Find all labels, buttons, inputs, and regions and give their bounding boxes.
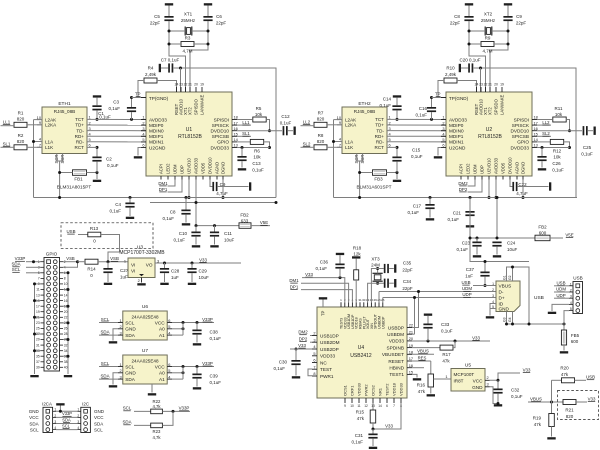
svg-text:VDD18: VDD18 bbox=[392, 382, 397, 396]
capacitor C31 0.1uF bbox=[351, 429, 377, 449]
svg-text:U4: U4 bbox=[358, 345, 365, 351]
svg-text:USBDP: USBDP bbox=[381, 316, 385, 329]
svg-text:47k: 47k bbox=[418, 389, 426, 394]
resistor R2 820 bbox=[14, 133, 27, 150]
wire bbox=[469, 21, 486, 92]
svg-text:USB: USB bbox=[66, 229, 75, 234]
svg-text:25MHz: 25MHz bbox=[481, 18, 496, 23]
svg-text:C14: C14 bbox=[383, 97, 392, 102]
wire pin22 bbox=[412, 290, 420, 328]
wire bbox=[67, 273, 69, 374]
svg-text:10uF: 10uF bbox=[199, 275, 210, 280]
node LL1 bbox=[3, 120, 11, 125]
node SCL bbox=[99, 361, 118, 367]
resistor R18 12k bbox=[352, 246, 362, 303]
svg-text:VI: VI bbox=[131, 268, 135, 273]
connector I2C header bbox=[77, 402, 90, 433]
junction bbox=[468, 30, 510, 46]
node UDM bbox=[554, 287, 569, 292]
capacitor C10 0.1uF bbox=[173, 226, 200, 248]
svg-text:2: 2 bbox=[142, 120, 144, 125]
capacitor C37 1uF bbox=[465, 267, 489, 287]
svg-text:UDP: UDP bbox=[462, 292, 471, 297]
wire rail B bbox=[150, 201, 278, 204]
wire TEST bracket bbox=[308, 369, 312, 376]
svg-text:R4: R4 bbox=[148, 66, 154, 71]
svg-text:VDD33: VDD33 bbox=[357, 382, 362, 396]
ground bbox=[93, 171, 101, 182]
svg-text:AVDD33: AVDD33 bbox=[449, 117, 467, 122]
svg-text:L2KA: L2KA bbox=[45, 123, 57, 128]
svg-text:820: 820 bbox=[566, 414, 574, 419]
connector USB header bbox=[569, 275, 583, 313]
svg-text:0,1uF: 0,1uF bbox=[415, 112, 427, 117]
svg-text:0,1uF: 0,1uF bbox=[280, 121, 292, 126]
svg-text:R15: R15 bbox=[356, 410, 365, 415]
wire RD+ bbox=[87, 135, 146, 137]
svg-text:MDIN0: MDIN0 bbox=[149, 129, 164, 134]
dashed box R21 bbox=[558, 391, 599, 420]
node LL2 bbox=[303, 120, 311, 125]
wire bbox=[333, 120, 335, 198]
svg-text:NR1: NR1 bbox=[378, 387, 383, 396]
svg-text:XT2: XT2 bbox=[484, 12, 493, 17]
svg-text:R21: R21 bbox=[565, 408, 574, 413]
node V33 bbox=[199, 257, 207, 262]
svg-text:U2VD10: U2VD10 bbox=[187, 158, 192, 174]
svg-text:MDIP1: MDIP1 bbox=[149, 134, 164, 139]
ground bbox=[148, 384, 156, 396]
svg-text:DM1: DM1 bbox=[289, 278, 299, 283]
wire SCL bbox=[56, 429, 77, 431]
svg-text:L1K: L1K bbox=[345, 145, 354, 150]
svg-text:RD-: RD- bbox=[376, 140, 385, 145]
svg-text:SDA: SDA bbox=[125, 377, 136, 382]
resistor R3 4.7M bbox=[181, 36, 194, 54]
svg-text:1: 1 bbox=[120, 362, 122, 367]
svg-text:C36: C36 bbox=[320, 260, 329, 265]
svg-text:TP: TP bbox=[135, 92, 141, 97]
svg-text:7: 7 bbox=[393, 404, 395, 408]
svg-text:A0: A0 bbox=[159, 327, 165, 332]
crystal XT1 25MHz bbox=[181, 12, 196, 36]
svg-text:MCP100T: MCP100T bbox=[454, 372, 475, 377]
label VCC left bbox=[29, 415, 39, 420]
svg-text:5: 5 bbox=[168, 324, 170, 329]
svg-text:18: 18 bbox=[409, 350, 413, 355]
capacitor C27 1uF bbox=[103, 262, 128, 285]
svg-text:24AA025E48: 24AA025E48 bbox=[131, 359, 159, 364]
svg-text:19: 19 bbox=[200, 83, 204, 87]
svg-text:SPDINB: SPDINB bbox=[387, 345, 404, 350]
node TP bbox=[435, 92, 441, 97]
svg-text:R13: R13 bbox=[90, 226, 99, 231]
capacitor C9 22pF bbox=[503, 14, 526, 25]
wire bbox=[484, 260, 530, 263]
wire bbox=[138, 81, 146, 98]
wire DVDD10 bbox=[537, 130, 582, 132]
svg-text:2: 2 bbox=[138, 278, 140, 283]
node V33 bbox=[412, 335, 490, 342]
svg-text:L1A: L1A bbox=[345, 139, 354, 144]
wire TCT AVDD33 bbox=[387, 118, 446, 121]
wire shield bottom bbox=[507, 312, 513, 325]
capacitor C14 0.1uF bbox=[379, 95, 401, 119]
svg-text:A0: A0 bbox=[159, 371, 165, 376]
svg-text:R2: R2 bbox=[18, 133, 24, 138]
svg-text:R23: R23 bbox=[153, 429, 161, 434]
svg-text:17: 17 bbox=[534, 120, 538, 125]
svg-text:47k: 47k bbox=[561, 372, 569, 377]
svg-text:TP: TP bbox=[435, 92, 441, 97]
svg-text:15: 15 bbox=[534, 132, 538, 137]
svg-text:1: 1 bbox=[445, 374, 447, 379]
svg-text:0,1uF: 0,1uF bbox=[99, 115, 111, 120]
wire bbox=[469, 237, 486, 272]
svg-text:35: 35 bbox=[36, 354, 40, 358]
node TP bbox=[135, 92, 141, 97]
capacitor C16 0.1uF bbox=[415, 96, 436, 119]
ferrite bead FB3 bbox=[357, 170, 392, 190]
svg-text:25: 25 bbox=[36, 327, 40, 331]
capacitor C21 0.1uF bbox=[447, 196, 474, 228]
svg-text:USB: USB bbox=[573, 275, 582, 280]
svg-text:LANWAKE: LANWAKE bbox=[500, 94, 505, 115]
svg-text:V33: V33 bbox=[385, 424, 393, 429]
svg-text:G3: G3 bbox=[503, 317, 507, 322]
svg-text:VBUSDET: VBUSDET bbox=[382, 352, 404, 357]
svg-text:16: 16 bbox=[64, 299, 68, 303]
svg-text:2,49k: 2,49k bbox=[145, 72, 157, 77]
svg-text:SDA: SDA bbox=[125, 333, 136, 338]
svg-text:SCL: SCL bbox=[125, 320, 135, 325]
wire TP row bbox=[432, 97, 447, 99]
svg-text:LANWAKE: LANWAKE bbox=[200, 94, 205, 115]
resistor R20 47k bbox=[552, 366, 587, 383]
node VBUS bbox=[528, 396, 563, 403]
wire bbox=[434, 374, 452, 379]
svg-text:6: 6 bbox=[168, 318, 170, 323]
wire UDM bbox=[379, 292, 496, 303]
svg-text:20: 20 bbox=[64, 310, 68, 314]
svg-text:9: 9 bbox=[344, 404, 346, 408]
svg-text:2: 2 bbox=[120, 368, 122, 373]
svg-text:22: 22 bbox=[484, 83, 488, 87]
connector USB micro bbox=[492, 275, 520, 322]
label GND left bbox=[29, 409, 40, 414]
svg-text:AGND: AGND bbox=[215, 162, 220, 174]
svg-text:0,1uF: 0,1uF bbox=[351, 440, 363, 445]
svg-text:V5E: V5E bbox=[565, 233, 573, 238]
capacitor C32 0.1uF bbox=[493, 380, 522, 406]
svg-text:TP: TP bbox=[321, 310, 326, 316]
svg-text:RCT: RCT bbox=[375, 145, 385, 150]
wire shield top bbox=[507, 267, 530, 324]
svg-text:XT2: XT2 bbox=[188, 107, 193, 115]
svg-text:2: 2 bbox=[492, 288, 494, 292]
resistor R23 4.7k bbox=[151, 423, 163, 440]
svg-text:C7 0,1uF: C7 0,1uF bbox=[161, 58, 180, 63]
wire bbox=[195, 201, 198, 226]
wire bbox=[78, 261, 86, 263]
svg-text:USBDM: USBDM bbox=[387, 332, 404, 337]
ground bbox=[504, 3, 512, 16]
svg-text:C16: C16 bbox=[419, 106, 428, 111]
svg-text:SL1: SL1 bbox=[242, 131, 250, 136]
svg-text:C2: C2 bbox=[106, 157, 112, 162]
svg-text:5: 5 bbox=[313, 351, 315, 356]
wire bbox=[360, 172, 373, 174]
svg-text:7: 7 bbox=[339, 143, 341, 148]
resistor R7 820 bbox=[314, 111, 327, 128]
wire TD+ bbox=[87, 124, 146, 126]
node USB bbox=[461, 280, 496, 286]
svg-text:DVDD33: DVDD33 bbox=[211, 145, 230, 150]
wire VCC bbox=[56, 416, 77, 418]
svg-text:0,1uF: 0,1uF bbox=[173, 238, 185, 243]
svg-text:13: 13 bbox=[534, 143, 538, 148]
svg-text:2,49k: 2,49k bbox=[445, 72, 457, 77]
IC U2 RTL8152B bbox=[441, 83, 539, 180]
svg-text:4,7uF: 4,7uF bbox=[216, 191, 228, 196]
wire bbox=[63, 305, 70, 308]
svg-text:3: 3 bbox=[487, 382, 489, 387]
svg-text:TEST2: TEST2 bbox=[385, 383, 390, 396]
ground bbox=[134, 148, 142, 159]
wire bbox=[490, 21, 508, 92]
wire V5E rail left bbox=[34, 196, 277, 199]
wire bbox=[383, 403, 401, 429]
connector I2CA header bbox=[42, 402, 56, 433]
svg-text:C15: C15 bbox=[412, 148, 421, 153]
svg-text:UDM: UDM bbox=[473, 164, 478, 174]
svg-text:C10: C10 bbox=[179, 231, 188, 236]
node V33P bbox=[172, 317, 214, 324]
IC U6 24AA025E48 bbox=[118, 304, 172, 340]
wire bbox=[566, 120, 571, 133]
wire bbox=[1, 146, 15, 148]
svg-text:FB3: FB3 bbox=[374, 177, 383, 182]
svg-text:SPICSB: SPICSB bbox=[212, 134, 229, 139]
wire bbox=[301, 146, 315, 148]
capacitor C39 0.1uF bbox=[192, 367, 221, 390]
node SL1 bbox=[3, 141, 11, 146]
ground TEST1 bbox=[412, 374, 421, 380]
crystal XT3 24M bbox=[371, 257, 383, 282]
svg-text:U1: U1 bbox=[186, 127, 193, 133]
wire bbox=[192, 30, 208, 32]
wire bbox=[59, 161, 61, 173]
wire bbox=[537, 119, 553, 121]
svg-text:UDM: UDM bbox=[556, 287, 566, 292]
capacitor C22 4.7uF bbox=[510, 180, 551, 196]
svg-text:SDA: SDA bbox=[62, 417, 71, 422]
wire bbox=[222, 180, 225, 200]
svg-text:TD+: TD+ bbox=[375, 123, 384, 128]
svg-text:R16: R16 bbox=[417, 382, 426, 387]
wire bbox=[488, 180, 491, 200]
svg-text:UDM: UDM bbox=[462, 286, 472, 291]
wire bbox=[564, 311, 569, 324]
capacitor C13 0.1uF bbox=[237, 148, 264, 173]
svg-text:C9: C9 bbox=[516, 14, 522, 19]
svg-text:C35: C35 bbox=[403, 261, 412, 266]
IC U5 MCP100T bbox=[451, 362, 490, 391]
svg-text:12k: 12k bbox=[353, 251, 361, 256]
svg-text:ACPI: ACPI bbox=[159, 164, 164, 174]
svg-text:19: 19 bbox=[409, 343, 413, 348]
svg-text:15: 15 bbox=[409, 370, 413, 375]
svg-text:1: 1 bbox=[77, 408, 79, 412]
capacitor C1 0.1uF bbox=[92, 95, 111, 119]
resistor R13 0 bbox=[88, 226, 101, 244]
wire bbox=[357, 154, 363, 162]
ground bbox=[459, 64, 461, 72]
svg-text:U2GND: U2GND bbox=[449, 145, 466, 150]
svg-text:1: 1 bbox=[124, 259, 126, 264]
capacitor C2 0.1uF bbox=[92, 147, 118, 172]
resistor R1 820 bbox=[14, 111, 27, 128]
svg-text:15: 15 bbox=[234, 132, 238, 137]
svg-text:38: 38 bbox=[64, 360, 68, 364]
wire bbox=[169, 43, 181, 45]
svg-text:LL2: LL2 bbox=[303, 120, 311, 125]
svg-text:TD+: TD+ bbox=[75, 123, 84, 128]
wire DVDD33 bbox=[537, 146, 570, 149]
wire bbox=[180, 68, 182, 92]
wire bbox=[190, 21, 208, 92]
svg-text:V33P: V33P bbox=[179, 406, 190, 411]
ground bbox=[56, 403, 64, 413]
wire bbox=[496, 196, 499, 238]
wire RCT bbox=[387, 146, 397, 148]
node USB bbox=[554, 280, 569, 285]
svg-text:47k: 47k bbox=[357, 416, 365, 421]
svg-text:10k: 10k bbox=[555, 112, 563, 117]
svg-text:VBUS: VBUS bbox=[530, 396, 542, 401]
capacitor C6 22pF bbox=[203, 14, 226, 25]
svg-text:6: 6 bbox=[386, 404, 388, 408]
svg-text:MDIN0: MDIN0 bbox=[449, 129, 464, 134]
svg-text:C38: C38 bbox=[210, 330, 219, 335]
wire LED anode rail bbox=[334, 119, 343, 121]
svg-text:18: 18 bbox=[234, 115, 238, 120]
svg-text:AVDD33: AVDD33 bbox=[494, 157, 499, 174]
svg-text:0,1uF: 0,1uF bbox=[411, 154, 423, 159]
capacitor C33 0.1uF bbox=[423, 314, 452, 342]
node V33P bbox=[15, 256, 41, 263]
svg-text:4: 4 bbox=[570, 301, 572, 305]
svg-text:0,1uF: 0,1uF bbox=[210, 380, 222, 385]
svg-text:6: 6 bbox=[142, 143, 144, 148]
wire bbox=[33, 120, 35, 198]
svg-text:3: 3 bbox=[492, 294, 494, 298]
resistor R22 4.7k bbox=[151, 399, 163, 414]
svg-text:14: 14 bbox=[378, 404, 382, 408]
svg-text:AGND: AGND bbox=[515, 162, 520, 174]
svg-text:TP(GND): TP(GND) bbox=[149, 96, 169, 101]
svg-text:DGND: DGND bbox=[521, 162, 526, 174]
svg-text:C27: C27 bbox=[120, 268, 129, 273]
svg-text:V33: V33 bbox=[472, 335, 480, 340]
label SCL right bbox=[94, 427, 103, 432]
wire DVDD33 bbox=[237, 146, 270, 149]
svg-text:16: 16 bbox=[409, 363, 413, 368]
svg-text:RTL8152B: RTL8152B bbox=[478, 134, 502, 140]
svg-text:C6: C6 bbox=[216, 14, 222, 19]
node V33 bbox=[302, 272, 345, 302]
svg-text:RJ45_08B: RJ45_08B bbox=[354, 109, 375, 114]
svg-text:R9: R9 bbox=[485, 36, 491, 41]
IC U4 USB2412 bbox=[312, 298, 414, 408]
capacitor C9 4.7uF bbox=[210, 180, 251, 196]
wire shield top2 bbox=[511, 266, 514, 282]
svg-text:0,1uF: 0,1uF bbox=[252, 167, 264, 172]
svg-text:RD+: RD+ bbox=[75, 134, 85, 139]
svg-text:C8: C8 bbox=[170, 210, 176, 215]
svg-text:3: 3 bbox=[442, 126, 444, 131]
svg-text:VO: VO bbox=[146, 262, 153, 267]
svg-text:0,1uF: 0,1uF bbox=[210, 336, 222, 341]
svg-text:R11: R11 bbox=[555, 106, 563, 111]
svg-text:22pF: 22pF bbox=[516, 21, 527, 26]
capacitor C30 0.1uF bbox=[273, 349, 300, 379]
node V33 bbox=[588, 396, 596, 401]
IC U1 RTL8152B bbox=[141, 83, 239, 180]
svg-text:U6: U6 bbox=[142, 304, 148, 310]
svg-text:GND: GND bbox=[125, 371, 136, 376]
ground bbox=[393, 171, 401, 182]
svg-text:PWR1: PWR1 bbox=[320, 374, 334, 379]
svg-text:G1: G1 bbox=[503, 275, 507, 280]
svg-text:ETH2: ETH2 bbox=[358, 101, 371, 107]
wire chassis bbox=[358, 171, 361, 198]
svg-text:R7: R7 bbox=[318, 111, 324, 116]
svg-text:OCS1: OCS1 bbox=[343, 384, 348, 396]
svg-text:GPIO: GPIO bbox=[217, 140, 229, 145]
svg-text:2: 2 bbox=[442, 120, 444, 125]
wire bbox=[194, 43, 208, 45]
svg-text:9: 9 bbox=[339, 120, 341, 125]
svg-text:1uF: 1uF bbox=[171, 275, 179, 280]
ground bbox=[548, 304, 569, 314]
svg-text:C21: C21 bbox=[453, 211, 462, 216]
svg-text:SDA: SDA bbox=[100, 374, 109, 379]
svg-text:V33: V33 bbox=[305, 272, 313, 277]
svg-text:SL2: SL2 bbox=[303, 141, 311, 146]
wire bbox=[63, 321, 70, 324]
svg-text:HBIND: HBIND bbox=[389, 366, 404, 371]
svg-text:RES: RES bbox=[418, 355, 427, 360]
svg-text:SL2: SL2 bbox=[542, 131, 550, 136]
svg-text:ACPI: ACPI bbox=[459, 164, 464, 174]
svg-text:0,1uF: 0,1uF bbox=[552, 167, 564, 172]
svg-text:22pF: 22pF bbox=[450, 21, 461, 26]
svg-text:R3: R3 bbox=[185, 36, 191, 41]
svg-text:VCC: VCC bbox=[155, 320, 166, 325]
wire TD- bbox=[87, 130, 146, 132]
svg-text:C26: C26 bbox=[552, 161, 561, 166]
node LL2 bbox=[537, 120, 551, 125]
svg-text:GND: GND bbox=[94, 409, 105, 414]
node V33 bbox=[290, 343, 312, 351]
svg-text:0,1uF: 0,1uF bbox=[107, 163, 119, 168]
wire bbox=[412, 367, 424, 369]
svg-text:7: 7 bbox=[313, 364, 315, 369]
node DP1 bbox=[159, 180, 182, 193]
wire bbox=[63, 260, 79, 267]
node V33P bbox=[172, 361, 214, 368]
